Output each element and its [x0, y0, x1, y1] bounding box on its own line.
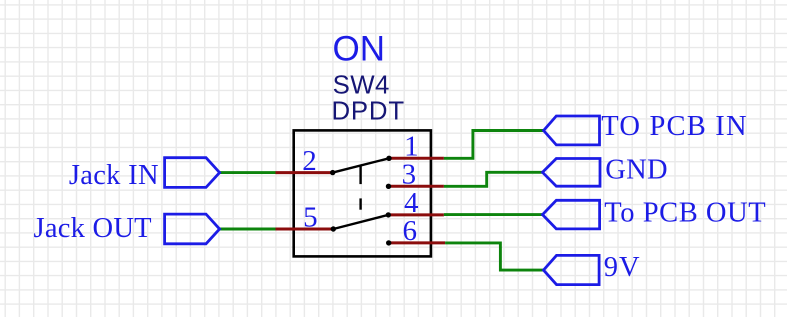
svg-text:Jack OUT: Jack OUT [34, 213, 152, 244]
svg-text:ON: ON [333, 29, 386, 68]
svg-text:2: 2 [302, 145, 317, 177]
svg-text:9V: 9V [604, 252, 641, 283]
svg-text:6: 6 [403, 215, 418, 247]
svg-text:To PCB OUT: To PCB OUT [604, 198, 766, 229]
svg-text:5: 5 [303, 201, 318, 233]
svg-text:SW4: SW4 [333, 72, 390, 100]
svg-text:3: 3 [402, 159, 417, 191]
svg-text:GND: GND [605, 154, 668, 185]
svg-text:DPDT: DPDT [332, 97, 405, 125]
svg-text:TO PCB IN: TO PCB IN [601, 111, 747, 142]
svg-text:Jack IN: Jack IN [69, 160, 159, 191]
